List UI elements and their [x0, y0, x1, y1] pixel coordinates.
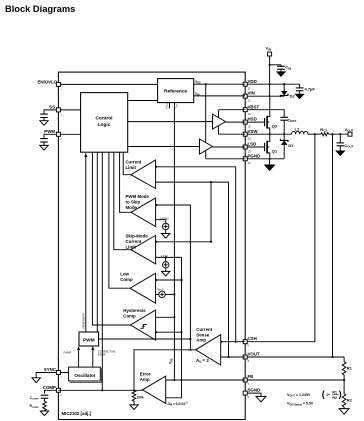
svg-text:Comp: Comp	[120, 277, 133, 282]
wire CORRECTIVE RAMP	[91, 346, 115, 367]
pin SS	[56, 108, 60, 112]
wire RCS to VOUT terminal	[329, 133, 348, 135]
wire skip top input	[156, 241, 211, 243]
comparator PWM mode to skip mode	[126, 194, 156, 227]
wire PGND rail external	[245, 158, 284, 160]
wire current limit bottom input	[156, 182, 229, 357]
wire skip output	[114, 152, 131, 250]
node PGND	[248, 153, 261, 165]
ground 4.7uF	[294, 94, 304, 100]
driver U2 (high-side)	[213, 110, 226, 134]
capacitor CBST	[280, 117, 296, 134]
wire L1 to RCS	[308, 133, 321, 135]
wire VSW internal	[219, 133, 246, 135]
wire LSD gate lead	[245, 146, 264, 148]
voltage source -76mV inline	[156, 288, 176, 298]
node VBST	[248, 104, 260, 116]
svg-text:14: 14	[248, 112, 251, 116]
wire PWM/SKIP# control	[82, 153, 88, 332]
svg-text:Reference: Reference	[164, 89, 188, 95]
wire to CIN	[270, 64, 281, 66]
amplifier error amp	[140, 372, 188, 407]
capacitor CCOMP	[30, 395, 49, 401]
block Oscillator	[69, 367, 102, 382]
wire VOUT sense external	[333, 134, 345, 357]
driver U3 (low-side)	[200, 84, 213, 159]
wire hysteresis bottom input	[156, 331, 182, 333]
svg-text:PWM Mode: PWM Mode	[126, 194, 150, 199]
ground 100k	[130, 405, 138, 410]
svg-text:VDD: VDD	[248, 79, 257, 84]
node VIN	[248, 91, 255, 103]
wire VDD rail	[245, 83, 299, 85]
ground COUT	[335, 151, 345, 157]
ground SGND	[256, 396, 266, 402]
wire hysteresis top input	[156, 316, 175, 318]
svg-text:10: 10	[248, 161, 251, 165]
wire control logic aux 1	[96, 152, 98, 332]
wire SGND external	[245, 393, 261, 396]
pin SYNC	[56, 371, 60, 375]
svg-text:PWM: PWM	[83, 337, 95, 343]
svg-text:12: 12	[248, 99, 251, 103]
block PWM	[79, 332, 99, 346]
svg-text:RAMP: RAMP	[64, 351, 72, 355]
wire LSD drive input	[128, 146, 200, 148]
pin squares right	[243, 82, 247, 86]
svg-text:SGND: SGND	[248, 387, 261, 392]
svg-text:VSW: VSW	[248, 129, 259, 134]
svg-text:PGND: PGND	[248, 153, 261, 158]
comparator hysteresis comp	[123, 308, 155, 340]
node EN/UVLO	[37, 80, 62, 92]
comparator current limit	[126, 160, 156, 189]
wire VIN rail	[245, 95, 284, 97]
svg-text:SYNC: SYNC	[44, 367, 57, 372]
svg-text:R2: R2	[332, 396, 337, 400]
wire EN/UVLO to Reference	[58, 83, 157, 85]
wire COMP external	[45, 390, 59, 393]
ground RCOMP	[40, 411, 48, 416]
svg-text:100k: 100k	[137, 395, 144, 399]
node PWM	[44, 129, 62, 141]
node SGND	[248, 387, 261, 399]
wire VIN supply drop	[269, 56, 271, 96]
inductor L1	[292, 127, 308, 135]
svg-text:Error: Error	[140, 372, 151, 377]
wire VBST internal	[219, 109, 246, 111]
svg-text:): )	[339, 389, 342, 399]
wire Control Logic to Reference	[128, 100, 158, 102]
ground SYNC	[32, 378, 40, 383]
svg-text:L1: L1	[295, 127, 300, 132]
svg-text:Hysteresis: Hysteresis	[123, 308, 146, 313]
svg-text:Control: Control	[95, 116, 112, 122]
node VDD	[248, 79, 257, 91]
terminal VOUT	[345, 127, 354, 136]
bus sense vertical	[210, 182, 212, 242]
comparator low comp	[120, 271, 155, 303]
svg-text:to Skip: to Skip	[126, 200, 141, 205]
svg-text:Q1: Q1	[272, 148, 278, 153]
resistor 100k	[132, 390, 144, 405]
bus VREF to error amp	[166, 257, 182, 397]
transistor Q2	[265, 96, 278, 134]
ground PWM cap	[40, 145, 48, 150]
wire low comp top input	[156, 279, 182, 281]
svg-text:PWM/SKIP#: PWM/SKIP#	[82, 313, 86, 328]
svg-text:Low: Low	[120, 271, 129, 276]
svg-text:VIN: VIN	[248, 91, 255, 96]
resistor R1	[342, 357, 352, 380]
svg-text:CSH: CSH	[248, 336, 257, 341]
wire hysteresis output	[92, 152, 130, 325]
svg-text:HSD: HSD	[248, 117, 257, 122]
node SS	[49, 105, 62, 117]
voltage source 0.85mV	[156, 217, 170, 234]
wire current limit top input	[156, 167, 236, 342]
node LSD	[248, 142, 257, 154]
capacitor on PWM	[40, 139, 48, 146]
node COMP	[43, 385, 63, 397]
wire VSW rail external with L1 etc	[245, 133, 291, 135]
svg-text:RAMP: RAMP	[98, 353, 106, 357]
svg-text:Amp: Amp	[196, 337, 206, 342]
pin EN/UVLO	[56, 82, 60, 86]
ground source1	[162, 234, 170, 239]
wire HSD gate lead	[245, 121, 264, 123]
svg-text:COMP: COMP	[43, 385, 56, 390]
wire SYNC	[36, 373, 68, 378]
ground CIN	[276, 71, 286, 77]
wire PWM	[44, 134, 128, 138]
pin COMP	[56, 388, 60, 392]
svg-text:Limit: Limit	[126, 165, 137, 170]
svg-text:Amp: Amp	[140, 377, 150, 382]
terminal VIN supply	[266, 46, 272, 57]
svg-text:VBST: VBST	[248, 104, 260, 109]
transistor Q1	[265, 134, 278, 159]
capacitor COUT	[337, 134, 354, 150]
svg-text:MIC2102 [adj.]: MIC2102 [adj.]	[62, 411, 92, 416]
node VOUT (pin)	[248, 352, 261, 364]
ground source2	[162, 271, 170, 276]
IC outline box U1	[58, 72, 245, 419]
wire pwm-skip top input to bus	[156, 205, 191, 350]
svg-text:R1: R1	[347, 366, 353, 371]
svg-text:PWM: PWM	[44, 129, 55, 134]
diode D1	[280, 134, 294, 159]
wire HSD driver output	[226, 121, 246, 123]
block Control Logic	[81, 93, 128, 153]
capacitor 4.7uF	[296, 84, 316, 94]
node VSW	[248, 129, 259, 141]
ground R2	[339, 409, 349, 415]
svg-text:D2: D2	[290, 93, 296, 98]
capacitor on SS	[40, 114, 48, 121]
wire VBST rail external	[245, 110, 284, 118]
svg-text:D1: D1	[288, 143, 294, 148]
svg-text:EN/UVLO: EN/UVLO	[37, 80, 57, 85]
node FB	[248, 374, 254, 386]
wire VOUT internal into CS amp	[221, 356, 246, 358]
node VREF stubs under Reference	[164, 101, 178, 109]
svg-text:LSD: LSD	[248, 142, 257, 147]
wire LSD driver output	[213, 146, 246, 148]
resistor RCS	[320, 127, 328, 136]
wire PGND internal	[206, 158, 246, 160]
svg-text:FB: FB	[248, 374, 254, 379]
formula VOUT	[287, 389, 342, 406]
svg-text:R2: R2	[347, 398, 353, 403]
svg-text:(: (	[322, 389, 325, 399]
wire RAMP	[64, 346, 81, 367]
svg-text:Current: Current	[126, 160, 142, 165]
amplifier current sense amp	[196, 327, 221, 365]
svg-text:Q2: Q2	[272, 124, 278, 129]
svg-text:R1: R1	[332, 390, 337, 394]
svg-text:VOUT: VOUT	[248, 352, 261, 357]
wire CS amp output to COMP node	[134, 350, 196, 391]
wire PWM block output to bus	[99, 338, 191, 340]
resistor R2	[342, 380, 352, 409]
wire pwm-skip output	[120, 152, 131, 212]
svg-text:1+: 1+	[326, 393, 330, 397]
wire VIN from Reference	[194, 92, 246, 97]
node CSH	[248, 336, 257, 348]
wire FB into error amp minus	[166, 379, 246, 381]
block Reference	[158, 79, 194, 103]
wire HSD drive input	[128, 121, 213, 123]
svg-text:15: 15	[248, 124, 251, 128]
svg-text:SS: SS	[49, 105, 55, 110]
node SYNC	[44, 367, 63, 379]
wire current limit output	[123, 152, 131, 175]
svg-text:Current: Current	[126, 239, 142, 244]
diode D2	[280, 84, 295, 98]
svg-text:Comp: Comp	[123, 314, 136, 319]
svg-text:Oscillator: Oscillator	[74, 373, 95, 378]
capacitor CIN	[277, 65, 291, 72]
resistor RCOMP	[30, 401, 47, 411]
wire low comp output	[109, 152, 130, 288]
wire CSH external	[245, 134, 315, 342]
node HSD	[248, 117, 257, 129]
svg-text:16: 16	[248, 137, 251, 141]
comparator skip-mode current limit	[126, 233, 156, 264]
voltage source 0.07V	[156, 254, 182, 271]
wire FB external	[245, 379, 344, 381]
svg-text:4.7µF: 4.7µF	[305, 87, 316, 92]
wire VDD from Reference	[194, 80, 246, 85]
pin PWM	[56, 132, 60, 136]
wire control logic aux 2 to COMP node	[101, 152, 103, 390]
wire COMP internal	[58, 389, 142, 391]
bus VFB	[169, 103, 176, 382]
ground SS cap	[40, 121, 48, 126]
svg-text:Block Diagrams: Block Diagrams	[5, 4, 75, 14]
svg-text:Skip-Mode: Skip-Mode	[126, 233, 149, 238]
ground PGND	[264, 159, 276, 171]
wire CSH internal into CS amp	[221, 341, 246, 343]
wire SS	[44, 110, 128, 114]
svg-text:Logic: Logic	[98, 122, 111, 128]
